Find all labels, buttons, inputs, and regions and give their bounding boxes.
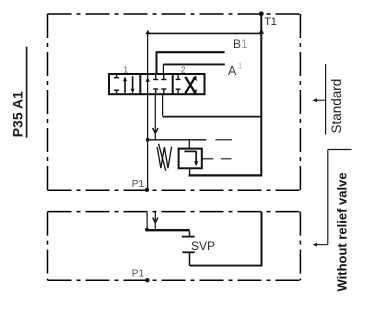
wire P line vertical (through valve, down to P1) — [147, 33, 149, 189]
node P1 dot (top rect) — [145, 188, 149, 192]
svg-text:T1: T1 — [264, 16, 276, 28]
node junction dot P/relief — [146, 138, 150, 142]
arrowhead up at T-link corner — [145, 30, 150, 34]
valve box1 arrow up — [123, 76, 127, 93]
valve box2 blocked port top B — [161, 75, 166, 80]
wire bottom-rect return riser — [261, 212, 263, 266]
valve box2 through-line arrow up (P passage) — [146, 77, 150, 82]
wire valve bottom port to relief feed (with flow arrow) — [154, 94, 156, 140]
valve box1 blocked port top-left — [114, 75, 119, 78]
valve V1 outer box — [109, 74, 205, 94]
node junction dot bottom box — [145, 228, 149, 232]
wire relief pilot right (solid) — [202, 158, 213, 160]
wire A1 horizontal — [163, 63, 224, 65]
arrowhead open V down (bottom box) — [153, 217, 158, 223]
valve box2 blocked port bottom A — [153, 89, 158, 93]
wire relief feed horizontal — [148, 139, 207, 141]
svg-text:P1: P1 — [132, 269, 145, 280]
valve V1 divider right — [172, 74, 174, 94]
svg-text:1: 1 — [238, 62, 243, 71]
border frame top rectangle (dash-dot) — [48, 14, 301, 190]
svg-text:P35 A1: P35 A1 — [10, 91, 26, 137]
valve box3 blocked port top-left — [176, 75, 181, 79]
valve box1 arrow down — [131, 76, 135, 93]
node T1 junction dot — [259, 11, 264, 16]
SVP plug upper blocked port — [182, 231, 195, 236]
arrowhead up on T1 trunk — [259, 28, 264, 34]
wire relief outlet down — [189, 168, 191, 174]
label P35 A1 — [10, 47, 27, 138]
svg-text:B1: B1 — [233, 37, 248, 51]
relief valve RV1 spring (adjustable) — [157, 144, 171, 171]
wire bottom-rect inlet with V arrow — [154, 212, 156, 230]
wire relief pilot right (dash) — [221, 158, 232, 160]
wire bottom-rect P riser (border to junction) — [146, 212, 148, 229]
wire relief feed stub down — [188, 140, 190, 148]
wire B1 horizontal — [156, 51, 225, 53]
valve V1 divider left — [139, 74, 141, 94]
valve box3 crossed arrows X — [185, 76, 197, 95]
wire relief outlet to trunk (thick) — [189, 174, 263, 176]
svg-text:P1: P1 — [132, 179, 145, 190]
wire T-link from valve top port to T1 trunk — [148, 32, 262, 34]
node P1 dot (bottom rect) — [145, 278, 149, 282]
wire B1 riser — [156, 52, 158, 74]
svg-text:1: 1 — [124, 66, 129, 75]
svg-text:A: A — [228, 64, 237, 78]
svg-text:Without relief valve: Without relief valve — [335, 172, 350, 291]
valve box1 blocked port bottom-left — [114, 90, 119, 93]
wire bottom-rect thick header — [147, 229, 190, 231]
wire valve bottom port 3 to trunk — [162, 94, 164, 116]
svg-text:SVP: SVP — [191, 239, 215, 253]
wire relief feed dashed continuation — [215, 139, 232, 141]
wire T1 trunk (return line to tank) — [260, 14, 262, 176]
relief valve RV1 internal path — [184, 151, 198, 166]
wire bottom-rect return bottom — [190, 265, 263, 267]
svg-text:2: 2 — [181, 66, 186, 75]
valve box2 blocked port bottom B — [161, 89, 166, 93]
label Standard with underline and arrow — [313, 64, 344, 135]
label Without relief valve with bracket and arrow — [313, 150, 352, 292]
wire A1 riser — [162, 64, 164, 74]
border frame bottom rectangle (dash-dot) — [48, 212, 301, 281]
relief valve RV1 box — [179, 149, 202, 169]
valve box2 blocked port top A — [153, 75, 158, 80]
valve box3 blocked port bottom-left — [176, 89, 181, 93]
SVP plug lower blocked port — [182, 252, 194, 265]
svg-text:Standard: Standard — [329, 79, 344, 134]
arrowhead open V down — [153, 128, 158, 133]
